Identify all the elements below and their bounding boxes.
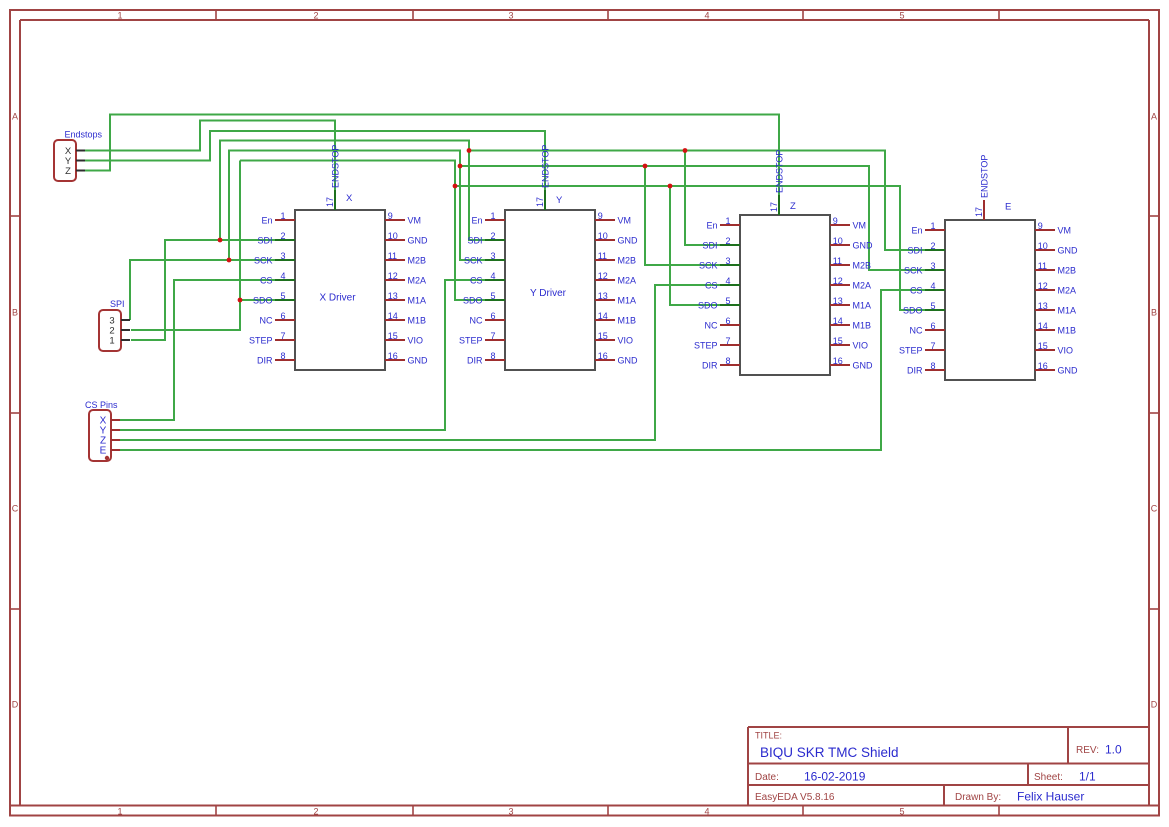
- svg-text:3: 3: [508, 807, 513, 817]
- svg-text:16: 16: [388, 351, 398, 361]
- svg-text:SCK: SCK: [254, 255, 273, 265]
- svg-text:15: 15: [388, 331, 398, 341]
- svg-text:6: 6: [725, 316, 730, 326]
- svg-text:1: 1: [280, 211, 285, 221]
- svg-text:GND: GND: [408, 355, 429, 365]
- svg-text:TITLE:: TITLE:: [755, 731, 782, 741]
- svg-text:7: 7: [490, 331, 495, 341]
- svg-text:2: 2: [930, 241, 935, 251]
- svg-text:Z: Z: [65, 166, 71, 177]
- svg-text:VM: VM: [1058, 225, 1072, 235]
- svg-text:1: 1: [725, 216, 730, 226]
- svg-text:DIR: DIR: [702, 360, 718, 370]
- svg-text:2: 2: [725, 236, 730, 246]
- svg-text:SDI: SDI: [467, 235, 482, 245]
- svg-text:4: 4: [490, 271, 495, 281]
- svg-text:SDO: SDO: [698, 300, 718, 310]
- svg-text:SDI: SDI: [702, 240, 717, 250]
- svg-text:GND: GND: [853, 240, 874, 250]
- svg-text:14: 14: [388, 311, 398, 321]
- svg-text:4: 4: [930, 281, 935, 291]
- svg-text:1: 1: [117, 10, 122, 20]
- svg-text:M2B: M2B: [408, 255, 427, 265]
- svg-text:SCK: SCK: [699, 260, 718, 270]
- svg-text:NC: NC: [260, 315, 273, 325]
- svg-text:STEP: STEP: [694, 340, 718, 350]
- svg-text:1.0: 1.0: [1105, 743, 1122, 757]
- svg-text:NC: NC: [470, 315, 483, 325]
- svg-text:ENDSTOP: ENDSTOP: [775, 150, 785, 193]
- svg-text:16: 16: [598, 351, 608, 361]
- svg-text:4: 4: [704, 10, 709, 20]
- svg-text:NC: NC: [705, 320, 718, 330]
- svg-text:M2B: M2B: [1058, 265, 1077, 275]
- svg-text:B: B: [1151, 308, 1157, 318]
- svg-text:12: 12: [598, 271, 608, 281]
- svg-text:D: D: [1151, 700, 1158, 710]
- svg-text:17: 17: [325, 197, 335, 207]
- svg-text:6: 6: [280, 311, 285, 321]
- svg-text:8: 8: [490, 351, 495, 361]
- svg-text:2: 2: [313, 807, 318, 817]
- svg-text:En: En: [706, 220, 717, 230]
- svg-text:ENDSTOP: ENDSTOP: [331, 145, 341, 188]
- svg-text:11: 11: [1038, 261, 1047, 271]
- svg-text:M1B: M1B: [618, 315, 637, 325]
- svg-text:SDO: SDO: [463, 295, 483, 305]
- svg-text:13: 13: [833, 296, 843, 306]
- svg-text:9: 9: [833, 216, 838, 226]
- svg-text:A: A: [1151, 112, 1157, 122]
- svg-text:ENDSTOP: ENDSTOP: [980, 155, 990, 198]
- svg-text:4: 4: [280, 271, 285, 281]
- svg-text:M2B: M2B: [853, 260, 872, 270]
- svg-text:A: A: [12, 112, 18, 122]
- svg-text:12: 12: [1038, 281, 1048, 291]
- svg-text:13: 13: [598, 291, 608, 301]
- svg-text:SDO: SDO: [253, 295, 273, 305]
- svg-text:En: En: [471, 215, 482, 225]
- svg-text:13: 13: [388, 291, 398, 301]
- svg-text:13: 13: [1038, 301, 1048, 311]
- svg-text:CS: CS: [470, 275, 483, 285]
- svg-text:GND: GND: [853, 360, 874, 370]
- svg-text:Y Driver: Y Driver: [530, 288, 567, 299]
- svg-text:M2A: M2A: [1058, 285, 1077, 295]
- svg-text:1: 1: [490, 211, 495, 221]
- svg-text:17: 17: [535, 197, 545, 207]
- svg-text:E: E: [1005, 202, 1011, 213]
- svg-text:7: 7: [280, 331, 285, 341]
- svg-text:M2A: M2A: [618, 275, 637, 285]
- svg-text:En: En: [261, 215, 272, 225]
- svg-text:En: En: [911, 225, 922, 235]
- svg-text:1: 1: [109, 335, 114, 346]
- svg-text:C: C: [1151, 504, 1158, 514]
- svg-text:CS: CS: [910, 285, 923, 295]
- svg-text:Felix Hauser: Felix Hauser: [1017, 790, 1084, 804]
- svg-text:1/1: 1/1: [1079, 770, 1096, 784]
- svg-text:VIO: VIO: [408, 335, 424, 345]
- svg-text:8: 8: [725, 356, 730, 366]
- svg-text:VIO: VIO: [1058, 345, 1074, 355]
- svg-text:11: 11: [598, 251, 607, 261]
- svg-text:X: X: [346, 193, 353, 204]
- svg-text:GND: GND: [618, 235, 639, 245]
- svg-text:10: 10: [833, 236, 843, 246]
- svg-text:10: 10: [388, 231, 398, 241]
- svg-text:VIO: VIO: [853, 340, 869, 350]
- svg-text:M2B: M2B: [618, 255, 637, 265]
- svg-text:15: 15: [598, 331, 608, 341]
- svg-text:7: 7: [725, 336, 730, 346]
- svg-text:5: 5: [725, 296, 730, 306]
- svg-text:4: 4: [704, 807, 709, 817]
- svg-text:GND: GND: [408, 235, 429, 245]
- svg-text:3: 3: [280, 251, 285, 261]
- svg-text:CS: CS: [260, 275, 273, 285]
- svg-text:DIR: DIR: [467, 355, 483, 365]
- svg-text:SDO: SDO: [903, 305, 923, 315]
- svg-text:10: 10: [1038, 241, 1048, 251]
- svg-text:M1A: M1A: [1058, 305, 1077, 315]
- svg-text:15: 15: [1038, 341, 1048, 351]
- svg-text:3: 3: [930, 261, 935, 271]
- svg-text:6: 6: [930, 321, 935, 331]
- svg-text:VM: VM: [408, 215, 422, 225]
- svg-text:VM: VM: [618, 215, 632, 225]
- svg-text:15: 15: [833, 336, 843, 346]
- svg-text:9: 9: [598, 211, 603, 221]
- svg-text:REV:: REV:: [1076, 745, 1099, 756]
- svg-text:9: 9: [388, 211, 393, 221]
- svg-text:CS Pins: CS Pins: [85, 400, 118, 410]
- svg-text:16: 16: [833, 356, 843, 366]
- svg-text:7: 7: [930, 341, 935, 351]
- svg-text:M1B: M1B: [408, 315, 427, 325]
- svg-text:11: 11: [388, 251, 397, 261]
- svg-text:M2A: M2A: [408, 275, 427, 285]
- svg-text:17: 17: [769, 202, 779, 212]
- svg-text:X Driver: X Driver: [319, 293, 356, 304]
- svg-text:14: 14: [598, 311, 608, 321]
- svg-text:5: 5: [280, 291, 285, 301]
- svg-text:5: 5: [899, 807, 904, 817]
- svg-text:M1B: M1B: [1058, 325, 1077, 335]
- svg-text:GND: GND: [1058, 365, 1079, 375]
- svg-text:C: C: [12, 504, 19, 514]
- svg-text:14: 14: [1038, 321, 1048, 331]
- svg-text:Sheet:: Sheet:: [1034, 772, 1063, 783]
- svg-text:Endstops: Endstops: [65, 130, 103, 140]
- svg-text:9: 9: [1038, 221, 1043, 231]
- svg-text:5: 5: [490, 291, 495, 301]
- svg-text:12: 12: [833, 276, 843, 286]
- svg-text:10: 10: [598, 231, 608, 241]
- svg-text:STEP: STEP: [899, 345, 923, 355]
- svg-text:SCK: SCK: [904, 265, 923, 275]
- svg-text:SDI: SDI: [257, 235, 272, 245]
- svg-text:DIR: DIR: [907, 365, 923, 375]
- svg-text:17: 17: [974, 207, 984, 217]
- svg-text:M1A: M1A: [618, 295, 637, 305]
- svg-text:5: 5: [930, 301, 935, 311]
- svg-text:GND: GND: [618, 355, 639, 365]
- svg-text:2: 2: [490, 231, 495, 241]
- svg-text:Drawn By:: Drawn By:: [955, 792, 1001, 803]
- svg-text:2: 2: [313, 10, 318, 20]
- svg-text:CS: CS: [705, 280, 718, 290]
- svg-text:1: 1: [930, 221, 935, 231]
- svg-text:3: 3: [725, 256, 730, 266]
- svg-text:E: E: [100, 446, 107, 457]
- svg-text:Z: Z: [790, 201, 796, 212]
- svg-text:SCK: SCK: [464, 255, 483, 265]
- svg-text:16-02-2019: 16-02-2019: [804, 770, 866, 784]
- svg-text:M1B: M1B: [853, 320, 872, 330]
- svg-text:STEP: STEP: [459, 335, 483, 345]
- svg-text:3: 3: [490, 251, 495, 261]
- svg-text:6: 6: [490, 311, 495, 321]
- svg-text:M1A: M1A: [408, 295, 427, 305]
- svg-text:Y: Y: [556, 195, 563, 206]
- svg-text:M1A: M1A: [853, 300, 872, 310]
- svg-text:BIQU SKR TMC Shield: BIQU SKR TMC Shield: [760, 745, 899, 760]
- svg-text:EasyEDA V5.8.16: EasyEDA V5.8.16: [755, 792, 835, 803]
- svg-text:8: 8: [930, 361, 935, 371]
- svg-text:VIO: VIO: [618, 335, 634, 345]
- svg-text:14: 14: [833, 316, 843, 326]
- svg-text:DIR: DIR: [257, 355, 273, 365]
- svg-text:Date:: Date:: [755, 772, 779, 783]
- svg-text:B: B: [12, 308, 18, 318]
- svg-text:STEP: STEP: [249, 335, 273, 345]
- svg-text:M2A: M2A: [853, 280, 872, 290]
- svg-text:5: 5: [899, 10, 904, 20]
- svg-text:11: 11: [833, 256, 842, 266]
- svg-text:1: 1: [117, 807, 122, 817]
- svg-text:16: 16: [1038, 361, 1048, 371]
- svg-text:8: 8: [280, 351, 285, 361]
- svg-text:NC: NC: [910, 325, 923, 335]
- svg-text:SDI: SDI: [907, 245, 922, 255]
- svg-text:ENDSTOP: ENDSTOP: [541, 145, 551, 188]
- svg-text:GND: GND: [1058, 245, 1079, 255]
- svg-text:2: 2: [280, 231, 285, 241]
- svg-text:4: 4: [725, 276, 730, 286]
- svg-text:3: 3: [508, 10, 513, 20]
- svg-text:12: 12: [388, 271, 398, 281]
- svg-text:SPI: SPI: [110, 299, 125, 309]
- svg-text:D: D: [12, 700, 19, 710]
- svg-text:VM: VM: [853, 220, 867, 230]
